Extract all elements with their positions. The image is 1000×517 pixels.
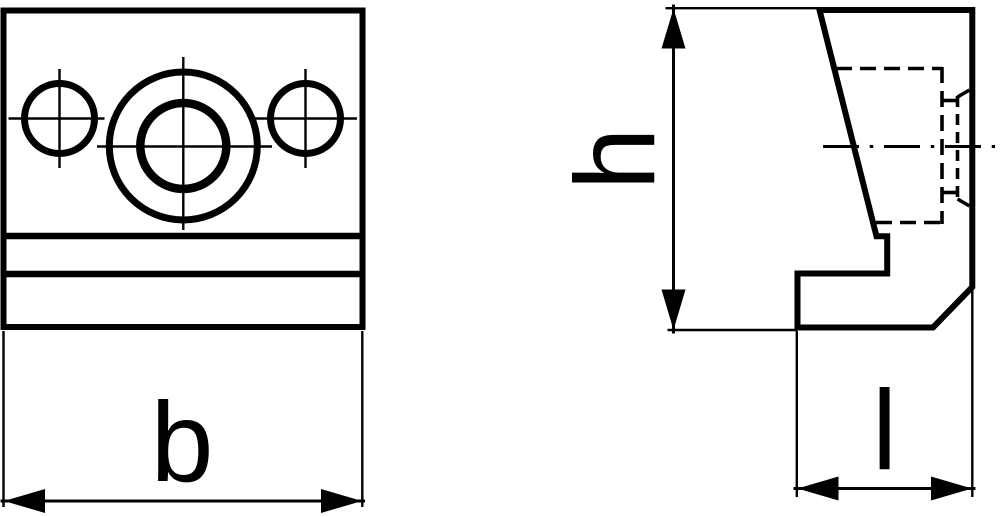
svg-text:l: l	[872, 367, 897, 493]
extension line h top	[666, 7, 817, 9]
dimension line l	[794, 487, 976, 490]
centerline horizontal of big bore	[97, 145, 272, 147]
extension line b right	[361, 331, 363, 507]
hole circle left	[25, 84, 95, 154]
arrowhead b right	[321, 489, 362, 513]
big bore inner circle	[140, 103, 226, 189]
dimension line h	[672, 5, 675, 334]
svg-text:b: b	[151, 379, 214, 505]
extension line b left	[2, 331, 4, 507]
hidden chamfer top	[958, 90, 970, 97]
big bore outer circle	[109, 72, 257, 220]
centerline horizontal of left hole	[9, 117, 105, 119]
centerline vertical of right hole	[304, 69, 306, 168]
hole circle right	[271, 84, 341, 154]
hidden thread line bottom	[876, 221, 942, 225]
arrowhead b left	[4, 489, 45, 513]
hidden pilot bottom horizontal	[942, 191, 958, 195]
arrowhead h top	[662, 9, 686, 49]
arrowhead h bottom	[662, 290, 686, 331]
dimension line b	[1, 500, 366, 503]
axis centerline of side hole	[823, 145, 995, 148]
front view groove top edge	[1, 233, 366, 240]
hidden pilot vertical	[956, 96, 960, 200]
centerline vertical of big bore	[182, 57, 184, 230]
centerline vertical of left hole	[58, 69, 60, 168]
extension line l right	[971, 290, 973, 497]
hidden thread line top	[836, 67, 942, 71]
centerline horizontal of right hole	[251, 117, 357, 119]
arrowhead l right	[931, 477, 972, 501]
svg-text:h: h	[552, 128, 678, 191]
hidden chamfer bottom	[958, 199, 970, 206]
side view outline	[798, 10, 973, 328]
arrowhead l left	[798, 477, 839, 501]
front view body outline	[4, 11, 363, 328]
hidden pilot top horizontal	[942, 99, 958, 103]
hidden thread bottom vertical	[940, 67, 944, 224]
extension line h bottom	[668, 329, 798, 331]
front view groove bottom edge	[1, 271, 366, 278]
extension line l left	[796, 331, 798, 497]
